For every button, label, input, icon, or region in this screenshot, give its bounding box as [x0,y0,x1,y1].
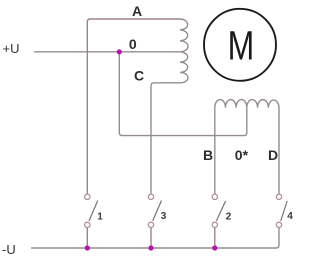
winding L1 section 0-C [180,52,188,83]
wire -U rail [31,228,279,248]
wire +U feed (from +U to winding tap 0) [34,51,180,53]
svg-text:3: 3 [161,211,167,222]
junction dot at 0 tap [117,49,122,54]
svg-text:B: B [203,147,213,163]
svg-text:2: 2 [226,211,232,222]
svg-text:4: 4 [287,211,293,222]
svg-text:A: A [132,3,142,19]
svg-text:M: M [228,23,255,69]
junction dot switch 1 / rail [85,245,90,250]
junction dot switch 2 / rail [212,245,217,250]
svg-text:-U: -U [2,242,16,257]
switch S2 contacts [212,194,226,227]
wire A (top rail from node A down to switch 1) [87,19,180,194]
svg-text:0*: 0* [235,147,249,163]
svg-text:D: D [268,147,278,163]
winding L1 section A-0 [180,19,188,52]
wire switch 3 to rail [150,228,152,248]
svg-text:C: C [134,68,144,84]
switch S4 contacts [276,194,287,227]
switch S1 contacts [85,194,98,227]
svg-text:+U: +U [3,41,20,56]
wire D (winding right end down to switch 4) [278,108,280,194]
wire switch 2 to rail [214,228,216,248]
switch S3 contacts [148,194,161,227]
motor M [204,9,276,81]
wire switch 1 to rail [86,228,88,248]
wire C (winding bottom down to switch 3) [151,83,180,194]
winding L2 section B-0* [215,100,247,108]
junction dot switch 3 / rail [148,245,153,250]
winding L2 section 0*-D [247,100,279,108]
svg-text:1: 1 [97,211,103,222]
svg-text:0: 0 [129,36,137,52]
wire B (winding left end down to switch 2) [214,108,216,194]
wire 0 tap (junction to winding tap 0*) [119,52,247,136]
